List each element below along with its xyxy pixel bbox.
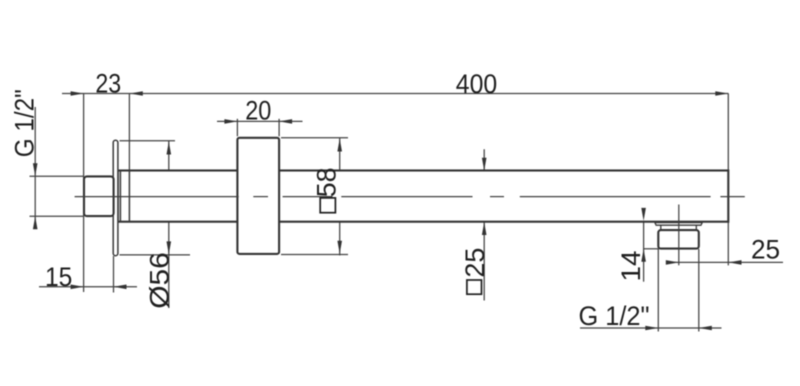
svg-text:15: 15 (45, 263, 72, 292)
svg-text:G 1/2": G 1/2" (579, 300, 650, 331)
svg-text:Ø56: Ø56 (145, 252, 175, 309)
svg-text:25: 25 (460, 248, 490, 278)
svg-text:23: 23 (95, 69, 121, 99)
svg-text:G 1/2": G 1/2" (10, 89, 39, 157)
svg-text:400: 400 (456, 70, 497, 99)
svg-text:58: 58 (311, 167, 341, 197)
svg-text:14: 14 (616, 251, 647, 282)
svg-text:25: 25 (751, 234, 780, 264)
svg-text:20: 20 (245, 96, 271, 126)
